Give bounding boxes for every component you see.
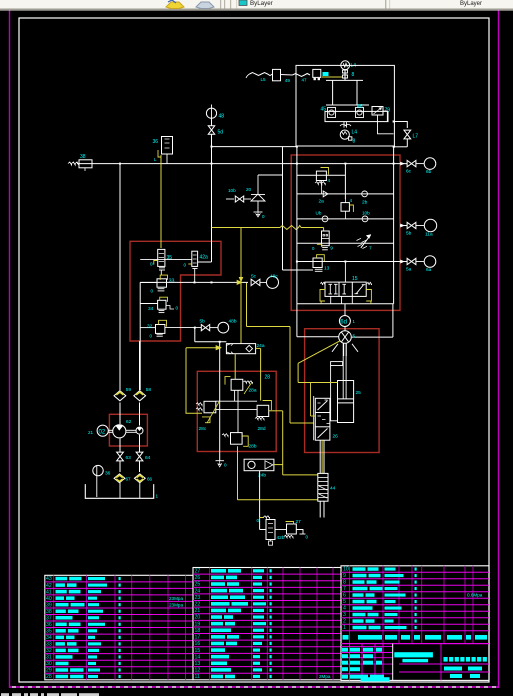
svg-text:ByLayer: ByLayer: [250, 0, 273, 7]
vertical x282: [282, 147, 284, 270]
svg-text:28b: 28b: [249, 444, 257, 450]
r3 h2: [216, 408, 257, 410]
amp tails: [320, 501, 324, 517]
branch y175: [258, 174, 283, 176]
gearbox: [326, 80, 369, 105]
gauge row top bowtie 6c: [407, 160, 416, 166]
label 15: [352, 276, 358, 282]
label 25: [356, 390, 362, 396]
label 42a: [200, 255, 209, 261]
svg-text:2a: 2a: [319, 199, 325, 205]
svg-text:38: 38: [80, 154, 86, 160]
label L7: [413, 134, 419, 140]
bus H1: [212, 146, 297, 148]
label L5: [261, 77, 267, 82]
label 8: [352, 72, 355, 78]
rail x140: [139, 282, 141, 390]
label 79: [385, 108, 391, 114]
label 44: [330, 486, 336, 492]
filter box 49: [273, 69, 281, 80]
svg-text:17: 17: [195, 635, 201, 641]
check 10b r1: [362, 216, 368, 222]
svg-text:36: 36: [153, 139, 159, 145]
svg-text:27: 27: [296, 519, 302, 525]
svg-text:20: 20: [246, 187, 252, 192]
gauge 36b: [93, 465, 103, 497]
label 27: [296, 519, 302, 525]
cylinder port block: [330, 362, 343, 421]
svg-text:25: 25: [356, 390, 362, 396]
v42a drop: [194, 269, 196, 283]
svg-text:28: 28: [265, 375, 271, 381]
shutoff 5b mid: [201, 325, 209, 331]
valve15 tails: [321, 262, 371, 304]
r1 bus y218.9: [297, 218, 394, 220]
label 9: [330, 246, 333, 252]
motor L4 lower: [340, 130, 349, 139]
svg-text:23Mpa: 23Mpa: [169, 596, 183, 601]
svg-text:6b: 6b: [426, 169, 432, 175]
label 28d: [258, 426, 266, 432]
svg-text:64: 64: [145, 455, 151, 461]
svg-text:5b: 5b: [200, 319, 206, 325]
svg-text:48b: 48b: [229, 319, 237, 325]
svg-text:4: 4: [328, 178, 331, 183]
label 8b: [353, 139, 356, 145]
label 32: [147, 324, 153, 330]
svg-text:26: 26: [333, 434, 339, 440]
highlight box region4: [305, 329, 380, 453]
svg-text:0: 0: [224, 463, 227, 468]
toolbar strip: [0, 0, 513, 11]
yellow coupling line: [322, 72, 342, 77]
gauge 48b: [210, 322, 229, 333]
svg-text:28c: 28c: [199, 426, 207, 432]
label 5b row: [406, 231, 412, 237]
drop from 5b gauge: [195, 328, 227, 343]
svg-text:5d: 5d: [218, 130, 224, 136]
r1 bus y244.3: [297, 242, 394, 244]
pump drops: [120, 435, 140, 452]
v26 drops: [320, 440, 324, 473]
label 2b: [362, 200, 368, 206]
svg-text:21: 21: [88, 430, 94, 435]
valve 9: [312, 231, 329, 251]
valve35 to 33: [160, 270, 162, 275]
gauge 48 top: [206, 105, 216, 127]
gauge row3 bowtie 5a: [407, 258, 416, 264]
pump 47: [313, 69, 321, 80]
parts table left: [45, 575, 193, 680]
vertical pump feed x120: [119, 163, 121, 390]
plot margin left: [9, 11, 11, 689]
r1 vertical right: [352, 147, 395, 338]
svg-text:10b: 10b: [228, 188, 236, 193]
svg-text:66: 66: [147, 477, 153, 482]
svg-text:35: 35: [167, 255, 173, 261]
svg-text:13: 13: [324, 265, 330, 271]
svg-text:44: 44: [330, 486, 336, 492]
label 58: [146, 387, 152, 393]
pump 45: [328, 108, 336, 118]
label 38: [80, 154, 86, 160]
label 63: [126, 455, 132, 461]
svg-text:62: 62: [126, 419, 132, 425]
relief valve 38: [68, 160, 92, 171]
label 59: [126, 387, 132, 393]
ground 0 x219: [216, 461, 228, 468]
svg-text:0: 0: [150, 262, 153, 267]
highlight box region3: [197, 371, 276, 451]
filter 59: [114, 391, 126, 401]
pump block: [325, 111, 388, 121]
svg-text:28a: 28a: [249, 388, 257, 394]
title block: [341, 644, 489, 682]
label 5a: [406, 267, 412, 273]
svg-text:48c: 48c: [270, 274, 278, 280]
check valve L7: [404, 130, 411, 147]
v42b bottom: [269, 540, 273, 546]
valve 33: [140, 275, 167, 291]
r1 vertical left: [296, 146, 395, 304]
svg-text:33: 33: [169, 279, 175, 285]
valve36 pilot: [154, 150, 161, 162]
label 66: [147, 477, 153, 482]
r3 h1: [216, 400, 257, 402]
svg-text:42b: 42b: [277, 535, 285, 541]
label 0 v32: [150, 334, 153, 339]
svg-text:02: 02: [99, 430, 106, 436]
svg-text:22: 22: [195, 602, 201, 608]
label 0 v35: [150, 262, 153, 267]
label 5b mid: [200, 319, 206, 325]
label 11b: [316, 211, 322, 216]
label 46': [357, 104, 364, 110]
feed line into motor: [297, 304, 339, 337]
yellow loop left: [186, 346, 221, 414]
svg-text:58: 58: [146, 387, 152, 393]
cyl yellow port: [311, 382, 338, 384]
highlight box region5: [109, 414, 147, 446]
svg-text:23: 23: [195, 595, 201, 601]
svg-text:42a: 42a: [200, 255, 209, 261]
svg-text:8: 8: [352, 72, 355, 78]
check20 drain: [254, 201, 266, 219]
label 28a: [249, 388, 257, 394]
svg-text:L7: L7: [413, 134, 419, 140]
label 64: [145, 455, 151, 461]
label 5d: [218, 130, 224, 136]
gauge 6a: [416, 256, 436, 268]
svg-text:28: 28: [46, 674, 52, 680]
label L0: [176, 306, 179, 311]
r1 bus y261.5: [296, 261, 394, 263]
label 7: [369, 246, 372, 252]
yellow 28d out: [269, 411, 283, 475]
label 35: [167, 255, 173, 261]
svg-text:0: 0: [151, 289, 154, 294]
label 33: [169, 279, 175, 285]
label 48: [219, 114, 225, 120]
label 36b: [105, 471, 111, 477]
vertical feed x211: [198, 134, 213, 262]
label 62: [126, 419, 132, 425]
label 28: [265, 375, 271, 381]
main pump 61: [113, 425, 136, 438]
label 67: [126, 477, 132, 482]
r3 diagonals: [207, 382, 252, 423]
toolbar separator 2: [385, 0, 390, 9]
svg-text:1: 1: [156, 494, 159, 499]
label 13: [324, 265, 330, 271]
valve 35: [154, 249, 165, 270]
valve 34: [140, 297, 174, 312]
label 1 mark: [328, 178, 331, 183]
gauge 6d: [339, 304, 355, 327]
label 21: [88, 430, 94, 435]
svg-text:L4: L4: [351, 63, 357, 69]
svg-text:6a: 6a: [426, 267, 432, 273]
valve79 drain: [378, 111, 394, 134]
valve 79: [372, 107, 383, 116]
label 2a: [319, 199, 325, 205]
label 0 42a: [184, 263, 187, 268]
r1 vertical mid: [344, 163, 346, 199]
linetype ByLayer: [460, 1, 482, 7]
yellow 28b drop: [237, 446, 239, 499]
yellow left drop: [251, 327, 314, 424]
parts table middle: [193, 568, 341, 681]
label 11a: [425, 232, 433, 238]
check20 up: [257, 175, 259, 194]
plot margin bottom dashed: [10, 686, 498, 688]
check 2b: [362, 191, 368, 197]
bus 282 mid: [140, 280, 248, 284]
check 20 diamond: [244, 194, 265, 201]
yellow diagonal to motor: [298, 341, 340, 383]
valve 28d: [255, 401, 271, 420]
cylinder 25: [338, 343, 354, 423]
svg-text:2Mpa: 2Mpa: [319, 674, 331, 679]
exit arrows right: [401, 162, 405, 263]
valve35 to 42a link: [140, 258, 192, 260]
shaft to motor L4b: [340, 122, 351, 128]
svg-text:0: 0: [306, 535, 309, 540]
valve 13: [313, 255, 324, 272]
label 0 v33: [151, 289, 154, 294]
hose L5 wavy: [246, 73, 273, 79]
r1 bus y193.9: [297, 193, 394, 195]
tank: [85, 483, 153, 499]
svg-text:7: 7: [369, 246, 372, 252]
svg-text:28d: 28d: [258, 426, 266, 432]
svg-text:49: 49: [285, 78, 291, 83]
svg-text:34: 34: [148, 306, 154, 312]
label 20: [246, 187, 252, 192]
svg-text:14: 14: [195, 654, 201, 660]
label 28b: [249, 444, 257, 450]
label 1 tank: [156, 494, 159, 499]
shuttle 24b: [244, 459, 274, 471]
valve 42a: [188, 251, 197, 268]
gauge row 6 bowtie: [407, 222, 416, 228]
coupling 8: [343, 70, 348, 81]
shutoff 64: [136, 452, 143, 461]
highlight box region1: [291, 155, 400, 310]
label 48b: [229, 319, 237, 325]
svg-text:15: 15: [352, 276, 358, 282]
v24b feed: [260, 471, 266, 530]
label 4: [350, 198, 353, 203]
check 10a: [322, 216, 328, 222]
svg-text:36: 36: [105, 471, 111, 477]
check 20 bowtie: [226, 196, 244, 202]
gauge 48c: [260, 276, 279, 288]
valve 26: [314, 396, 330, 440]
gauge row3 line: [394, 261, 407, 263]
label 34: [148, 306, 154, 312]
svg-text:46': 46': [357, 104, 364, 110]
svg-text:6d: 6d: [340, 320, 347, 326]
svg-text:48: 48: [219, 114, 225, 120]
aux pump 60: [136, 427, 143, 434]
valve 42b: [260, 516, 276, 540]
svg-text:59: 59: [126, 387, 132, 393]
svg-text:ByLayer: ByLayer: [460, 1, 482, 7]
label 26: [333, 434, 339, 440]
yellow 24a top: [234, 354, 236, 380]
toolbar separators: [220, 0, 237, 9]
check 2a: [323, 191, 328, 197]
svg-text:11a: 11a: [425, 232, 433, 238]
valve 28b: [222, 433, 248, 447]
pump 46: [356, 108, 364, 118]
parts table right: [341, 566, 489, 681]
svg-text:Ub: Ub: [316, 211, 322, 216]
r3 cross v1: [235, 390, 238, 432]
highlight box region2 L-shape: [130, 241, 221, 341]
check valve L7 branch: [394, 122, 408, 129]
valve 27: [275, 522, 296, 538]
valve 4: [341, 199, 353, 219]
filter 58: [134, 391, 146, 401]
svg-text:5: 5: [353, 334, 356, 340]
r1 bus y175: [297, 174, 346, 176]
bus H2: [77, 163, 407, 165]
yellow bus 475: [283, 474, 318, 476]
directional valve 15: [320, 282, 371, 296]
yellow pilot bus: [212, 226, 324, 232]
svg-text:47: 47: [302, 78, 308, 83]
valve drops2: [120, 461, 140, 472]
svg-text:32: 32: [147, 324, 153, 330]
svg-text:2b: 2b: [362, 200, 368, 206]
label 28c: [199, 426, 207, 432]
plot margin right: [498, 11, 500, 689]
svg-text:11: 11: [195, 674, 200, 680]
valve 28c: [196, 401, 216, 422]
label 0 42b: [257, 518, 260, 523]
hyd motor 66: [332, 327, 358, 357]
gauge 11a: [416, 219, 437, 231]
motor M circle: [341, 61, 350, 70]
svg-text:5c: 5c: [251, 274, 257, 280]
pump feed segs: [120, 403, 140, 426]
shutoff 63: [117, 452, 124, 461]
label 45: [321, 107, 327, 113]
yellow 24b out: [274, 464, 283, 466]
shuttle 24a: [226, 344, 255, 354]
svg-text:0: 0: [184, 263, 187, 268]
svg-text:9: 9: [330, 246, 333, 252]
label motor: [353, 334, 356, 340]
valve15 left bracket: [320, 290, 325, 302]
vertical x219 drain: [219, 342, 221, 461]
label L4 top: [351, 63, 357, 69]
yellow bus lower: [238, 499, 318, 501]
svg-text:0: 0: [257, 518, 260, 523]
toolbar icon layer-previous: [196, 2, 214, 9]
big unit rect: [296, 65, 394, 146]
svg-text:26: 26: [195, 575, 201, 581]
label 6c: [406, 169, 412, 175]
svg-text:L5: L5: [261, 77, 267, 82]
toolbar icon make-layer: [166, 0, 184, 9]
hose wavy 2: [281, 74, 311, 77]
svg-text:5a: 5a: [406, 267, 412, 273]
svg-text:18: 18: [195, 628, 201, 634]
label 10b r1: [362, 211, 370, 216]
label L4 lower: [352, 130, 358, 136]
label 36: [153, 139, 159, 145]
label 47: [302, 78, 308, 83]
filter 58 feed: [139, 341, 141, 390]
label 6a: [426, 267, 432, 273]
relief valve 1: [315, 168, 329, 194]
shutoff 5c: [251, 279, 260, 285]
line to 5b: [165, 327, 202, 329]
label 49: [285, 78, 291, 83]
svg-text:45: 45: [321, 107, 327, 113]
yellow 24a right: [256, 348, 261, 400]
gauge row 6 line: [400, 225, 407, 227]
branch y270: [283, 269, 314, 271]
label 10b: [228, 188, 236, 193]
svg-text:10b: 10b: [362, 211, 370, 216]
valve 36: [162, 137, 173, 155]
label 6b: [426, 169, 432, 175]
label 5c: [251, 274, 257, 280]
svg-text:0: 0: [150, 334, 153, 339]
gauge 12: [97, 425, 113, 436]
svg-text:13: 13: [195, 661, 201, 667]
svg-text:L4: L4: [352, 130, 358, 136]
label 24b: [258, 473, 266, 479]
gauge 6b: [416, 158, 436, 170]
svg-text:67: 67: [126, 477, 132, 482]
svg-text:0.6Mpa: 0.6Mpa: [467, 593, 483, 598]
filter 65: [134, 474, 145, 483]
label 48c: [270, 274, 278, 280]
svg-text:63: 63: [126, 455, 132, 461]
valve35 pilot yellow: [160, 155, 162, 248]
svg-text:23Mpa: 23Mpa: [169, 602, 183, 607]
valve 28a: [225, 377, 253, 391]
svg-text:0: 0: [176, 306, 179, 311]
label 24a: [257, 343, 265, 349]
svg-text:27: 27: [195, 569, 201, 575]
valve36 drop: [166, 154, 168, 164]
